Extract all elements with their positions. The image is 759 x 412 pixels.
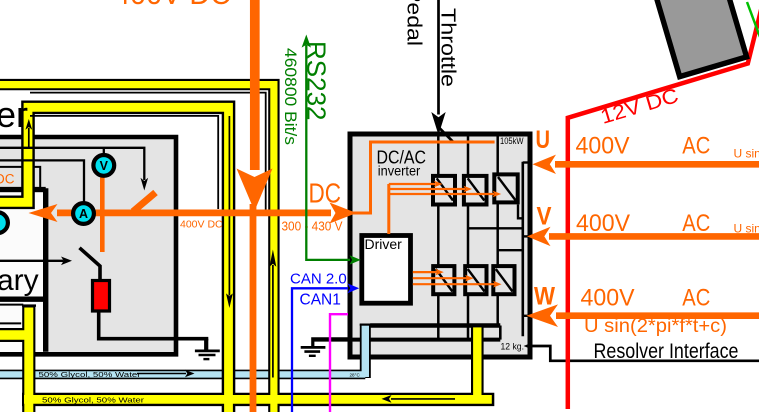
voltmeter V <box>93 155 114 176</box>
IGBT S6 <box>493 266 514 294</box>
yellow pipe inverter vertical (black edge) <box>471 325 484 399</box>
svg-text:28°C: 28°C <box>350 373 361 378</box>
brake switch <box>80 248 101 282</box>
big down arrowhead <box>237 169 273 212</box>
yellow cores <box>0 85 274 412</box>
right arrowhead into inverter <box>330 203 357 224</box>
svg-text:DC: DC <box>309 178 342 209</box>
rail connector <box>499 326 502 340</box>
driver box U2 <box>362 236 411 304</box>
svg-text:400V: 400V <box>576 132 630 159</box>
phase W output stub <box>523 315 528 317</box>
svg-text:CAN 2.0: CAN 2.0 <box>290 271 347 288</box>
RS232 wire with up arrow <box>302 35 361 265</box>
ammeter A <box>73 203 94 224</box>
IGBT S4 <box>433 266 454 294</box>
resolver interface wire with arrow into inverter <box>524 343 759 361</box>
svg-text:AC: AC <box>682 132 710 159</box>
yellow pipe cap (inverter) <box>472 325 483 327</box>
ground 1 <box>195 339 220 359</box>
gate wires lower row <box>413 272 495 284</box>
green phase line (top right) <box>747 2 759 37</box>
svg-text:12 kg.: 12 kg. <box>501 342 525 353</box>
bridge leg wires (verticals) <box>438 135 497 340</box>
phase W tap <box>498 249 523 251</box>
svg-text:RS232: RS232 <box>302 41 332 121</box>
orange drop below voltmeter <box>100 177 105 252</box>
svg-text:er: er <box>0 94 28 135</box>
IGBT S1 <box>433 176 455 205</box>
phase V output stub <box>523 235 529 237</box>
svg-text:400V: 400V <box>581 284 635 311</box>
svg-text:U sin(2*pi*f*t+b): U sin(2*pi*f*t+b) <box>734 221 759 235</box>
svg-text:460800 Bit/s: 460800 Bit/s <box>281 48 299 145</box>
gate wires upper row <box>389 184 495 194</box>
driver feed riser <box>387 184 390 234</box>
svg-text:U sin(2*pi*f*t): U sin(2*pi*f*t) <box>734 147 759 161</box>
phase U step wire <box>518 205 523 219</box>
red 12V DC line <box>568 2 759 409</box>
svg-text:50% Glycol, 50% Water: 50% Glycol, 50% Water <box>42 395 145 404</box>
yellow pipe bottom-left vertical (black edge) <box>22 306 35 412</box>
control wire to contactor (with down arrow) <box>0 148 148 191</box>
IGBT S3 <box>494 174 517 202</box>
ammeter wire <box>0 160 84 202</box>
CAN 2.0 wire with arrow <box>292 283 359 412</box>
wire in mid pipe with down arrow <box>226 116 233 308</box>
contactor blade (orange switch) <box>133 193 156 212</box>
brake resistor R1 <box>93 281 110 312</box>
svg-text:Pedal: Pedal <box>403 0 426 46</box>
wire to brake switch (right arrow) <box>0 257 72 266</box>
yellow pipe flow arrow (left) <box>382 395 456 403</box>
phase U output stub <box>523 161 531 163</box>
svg-text:300 - 430 V: 300 - 430 V <box>282 219 343 234</box>
svg-text:V: V <box>100 159 109 173</box>
glycol pipe (water, horizontal) <box>0 324 365 378</box>
svg-text:400V: 400V <box>576 210 630 237</box>
left arrowhead into battery <box>29 204 58 222</box>
svg-text:400V DC: 400V DC <box>180 219 223 231</box>
battery box (gray) <box>0 137 176 354</box>
svg-text:105kW: 105kW <box>500 136 524 146</box>
svg-text:inverter: inverter <box>378 164 421 179</box>
phase V tap <box>468 227 523 229</box>
glycol flow arrow <box>137 370 195 377</box>
svg-text:AC: AC <box>682 284 710 311</box>
glycol pipe top cap <box>360 324 371 326</box>
yellow pipe bottom-left branch (black edge) <box>0 328 27 342</box>
wire along outer pipe <box>30 93 266 210</box>
svg-text:Driver: Driver <box>365 236 403 252</box>
svg-text:12V DC: 12V DC <box>598 84 681 129</box>
svg-text:DC: DC <box>0 172 15 187</box>
throttle pedal wire with arrow <box>431 0 452 142</box>
svg-text:A: A <box>79 207 88 221</box>
svg-text:Resolver Interface: Resolver Interface <box>594 340 739 363</box>
auxiliary box (white, label 'ary') <box>0 188 46 352</box>
yellow pipe cap (bottom-left) <box>22 304 36 306</box>
phase W arrow <box>526 304 759 327</box>
CAN1 wire (magenta) <box>330 314 348 412</box>
edge meter (cut off) <box>0 212 8 233</box>
phase U arrow <box>533 155 759 174</box>
svg-text:U: U <box>536 126 551 154</box>
DC- rail lower / ground wire <box>312 338 501 342</box>
wire along inner pipe <box>30 116 218 209</box>
svg-text:50% Glycol, 50% Water: 50% Glycol, 50% Water <box>39 370 142 379</box>
400V feed wire from top <box>250 0 260 170</box>
svg-text:CAN1: CAN1 <box>300 291 341 308</box>
phase V arrow <box>527 227 759 246</box>
svg-text:400V DC: 400V DC <box>114 0 231 11</box>
voltmeter stub <box>103 148 105 154</box>
phase bus vertical <box>521 162 524 336</box>
inner sub-box line (bottom-left) <box>0 304 23 306</box>
svg-text:W: W <box>534 282 555 310</box>
ground 2 (inverter) <box>301 339 349 356</box>
svg-text:V: V <box>537 203 552 231</box>
IGBT S5 <box>465 266 486 294</box>
wire in right pipe with up arrow <box>270 250 277 378</box>
wire in left pipe with up arrow <box>25 119 32 148</box>
400V wire continuing down <box>250 204 257 412</box>
svg-text:AC: AC <box>682 210 710 237</box>
inner sub-box line 2 (bottom-left) <box>0 322 21 324</box>
motor body (rotated gray rect) <box>653 0 747 77</box>
inverter box <box>350 134 530 357</box>
svg-text:ary: ary <box>0 264 39 297</box>
yellow pipe outer loop (black edge) <box>0 85 274 412</box>
DC label box <box>0 167 40 189</box>
svg-text:U sin(2*pi*f*t+c): U sin(2*pi*f*t+c) <box>584 316 727 337</box>
resistor ground wire <box>99 311 209 339</box>
yellow pipe inner loop (black edge) <box>0 107 229 412</box>
DC- rail upper <box>370 323 500 327</box>
IGBT S2 <box>464 176 487 205</box>
400V DC horizontal bus <box>57 209 331 216</box>
svg-text:Throttle: Throttle <box>437 8 460 87</box>
inverter DC feed wire <box>352 142 495 213</box>
yellow pipe bottom horizontal (black edge) <box>22 393 494 406</box>
